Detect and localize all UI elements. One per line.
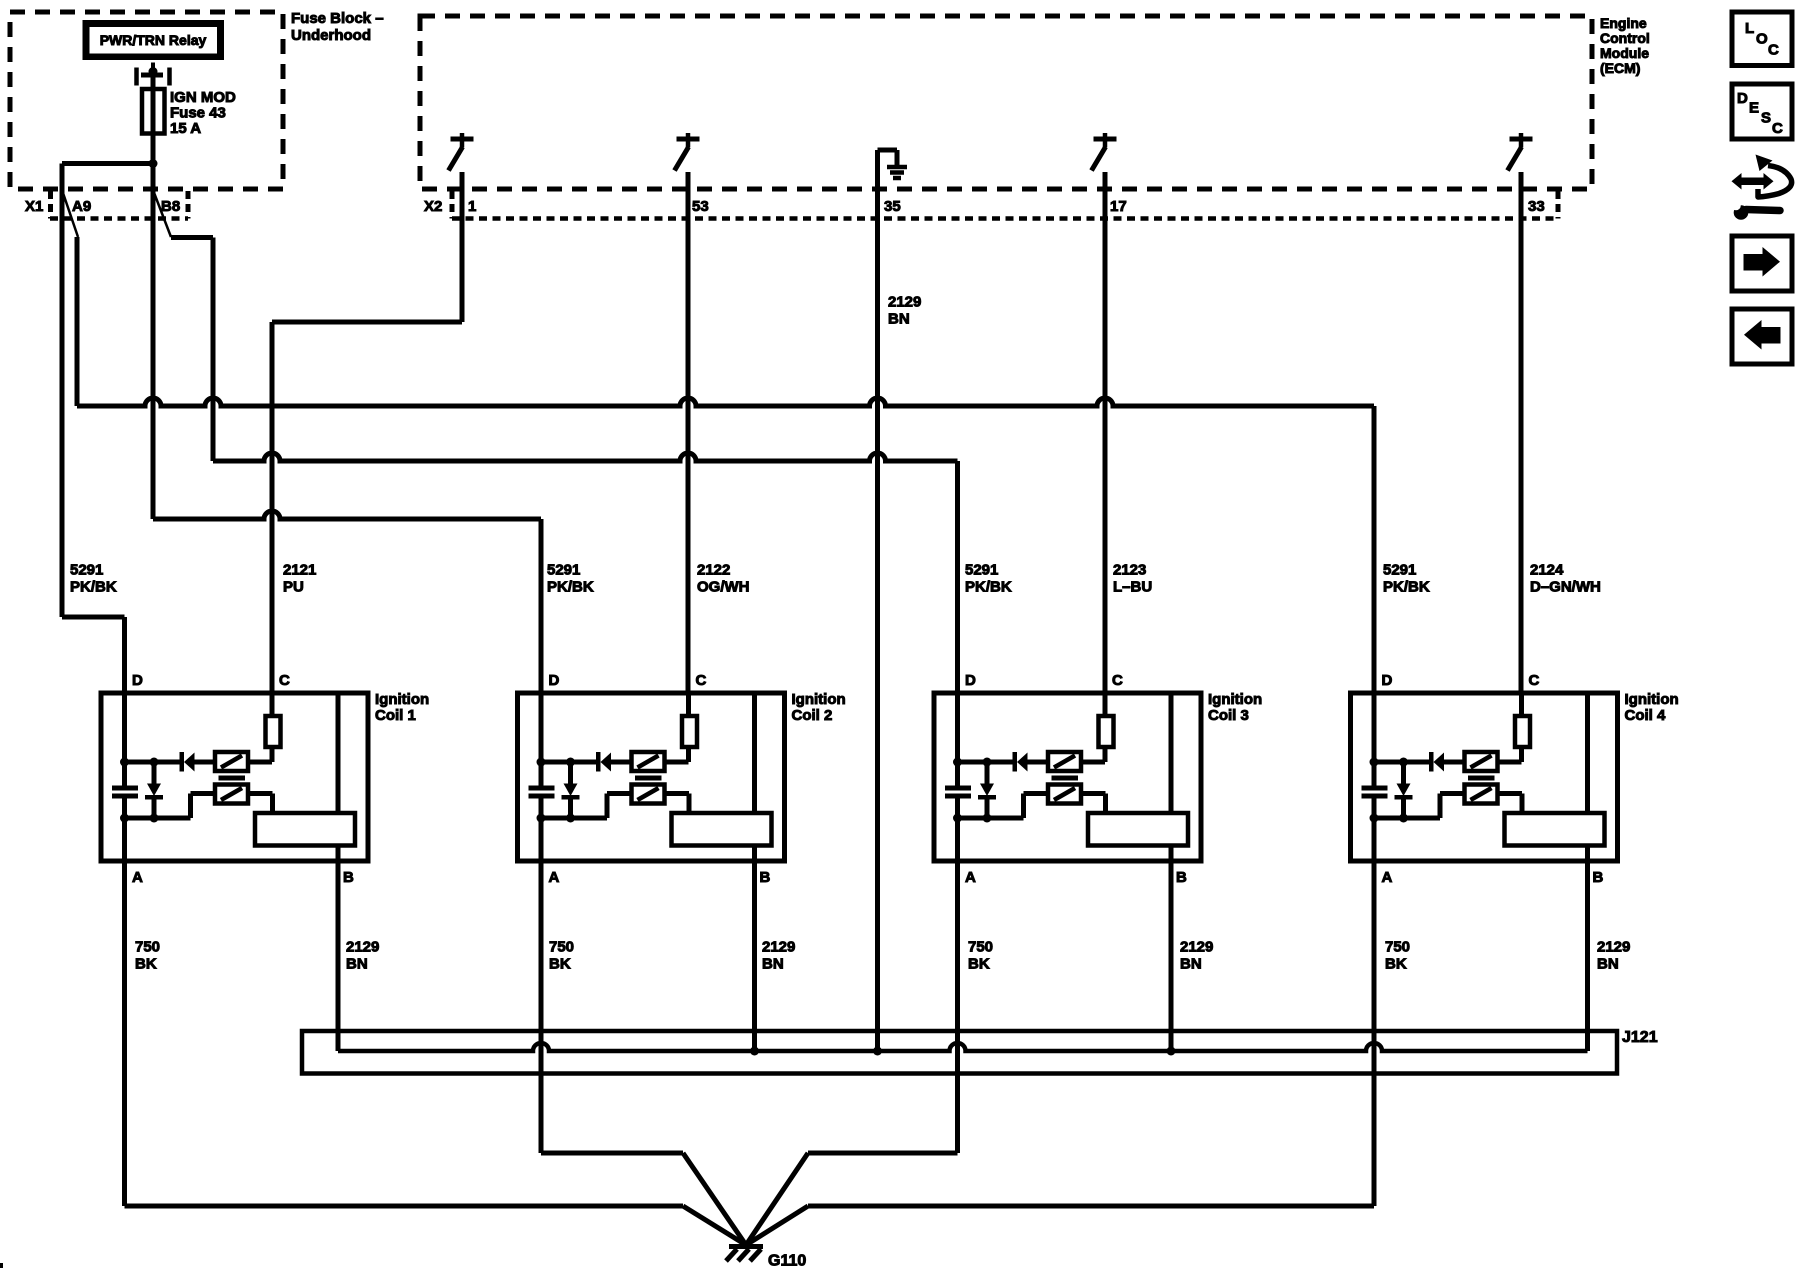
svg-text:Module: Module [1600, 45, 1649, 61]
svg-text:1: 1 [468, 198, 476, 215]
svg-text:750: 750 [968, 939, 993, 956]
svg-text:15 A: 15 A [170, 120, 201, 137]
svg-text:2121: 2121 [283, 562, 316, 579]
svg-text:L: L [1745, 20, 1754, 37]
svg-text:750: 750 [1385, 939, 1410, 956]
svg-text:33: 33 [1528, 198, 1545, 215]
svg-text:X1: X1 [25, 198, 43, 215]
svg-text:IGN MOD: IGN MOD [170, 89, 236, 106]
svg-text:5291: 5291 [547, 562, 580, 579]
svg-text:2129: 2129 [888, 294, 921, 311]
svg-text:BK: BK [135, 956, 157, 973]
svg-text:Coil 3: Coil 3 [1208, 707, 1249, 724]
svg-text:A9: A9 [72, 198, 91, 215]
svg-text:Ignition: Ignition [1208, 691, 1262, 708]
svg-text:Ignition: Ignition [792, 691, 846, 708]
svg-text:BN: BN [1597, 956, 1619, 973]
svg-text:PU: PU [283, 579, 304, 596]
svg-text:Fuse 43: Fuse 43 [170, 105, 226, 122]
svg-text:B8: B8 [161, 198, 180, 215]
svg-text:BK: BK [1385, 956, 1407, 973]
svg-text:BK: BK [968, 956, 990, 973]
svg-text:Control: Control [1600, 30, 1650, 46]
svg-text:G110: G110 [768, 1253, 806, 1270]
svg-text:X2: X2 [424, 198, 442, 215]
svg-text:S: S [1761, 110, 1771, 127]
svg-text:2122: 2122 [697, 562, 730, 579]
svg-text:2129: 2129 [762, 939, 795, 956]
svg-text:C: C [1768, 42, 1779, 59]
svg-text:2124: 2124 [1530, 562, 1564, 579]
svg-text:5291: 5291 [70, 562, 103, 579]
svg-text:2129: 2129 [1597, 939, 1630, 956]
svg-text:2129: 2129 [346, 939, 379, 956]
svg-text:PK/BK: PK/BK [70, 579, 117, 596]
svg-text:Engine: Engine [1600, 15, 1647, 31]
svg-text:J121: J121 [1622, 1029, 1658, 1046]
svg-text:BN: BN [346, 956, 368, 973]
svg-text:C: C [1772, 120, 1783, 137]
svg-text:53: 53 [692, 198, 709, 215]
svg-text:E: E [1749, 100, 1759, 117]
svg-text:OG/WH: OG/WH [697, 579, 750, 596]
svg-text:5291: 5291 [965, 562, 998, 579]
svg-text:BN: BN [762, 956, 784, 973]
svg-text:BN: BN [1180, 956, 1202, 973]
svg-text:5291: 5291 [1383, 562, 1416, 579]
svg-text:BK: BK [549, 956, 571, 973]
svg-text:17: 17 [1110, 198, 1127, 215]
svg-text:L–BU: L–BU [1113, 579, 1152, 596]
svg-text:2129: 2129 [1180, 939, 1213, 956]
svg-text:D–GN/WH: D–GN/WH [1530, 579, 1601, 596]
svg-text:2123: 2123 [1113, 562, 1146, 579]
svg-text:35: 35 [884, 198, 901, 215]
svg-text:D: D [1737, 90, 1748, 107]
svg-text:Coil 1: Coil 1 [375, 707, 416, 724]
svg-text:Ignition: Ignition [375, 691, 429, 708]
svg-text:BN: BN [888, 311, 910, 328]
svg-text:750: 750 [549, 939, 574, 956]
svg-text:PWR/TRN Relay: PWR/TRN Relay [100, 32, 207, 48]
svg-text:PK/BK: PK/BK [1383, 579, 1430, 596]
svg-text:Coil 2: Coil 2 [792, 707, 833, 724]
svg-text:Fuse Block –: Fuse Block – [291, 10, 384, 27]
svg-text:PK/BK: PK/BK [965, 579, 1012, 596]
svg-text:O: O [1756, 31, 1768, 48]
svg-text:Coil 4: Coil 4 [1625, 707, 1666, 724]
svg-text:PK/BK: PK/BK [547, 579, 594, 596]
svg-text:Ignition: Ignition [1625, 691, 1679, 708]
svg-text:750: 750 [135, 939, 160, 956]
svg-text:Underhood: Underhood [291, 27, 371, 44]
svg-text:(ECM): (ECM) [1600, 60, 1640, 76]
